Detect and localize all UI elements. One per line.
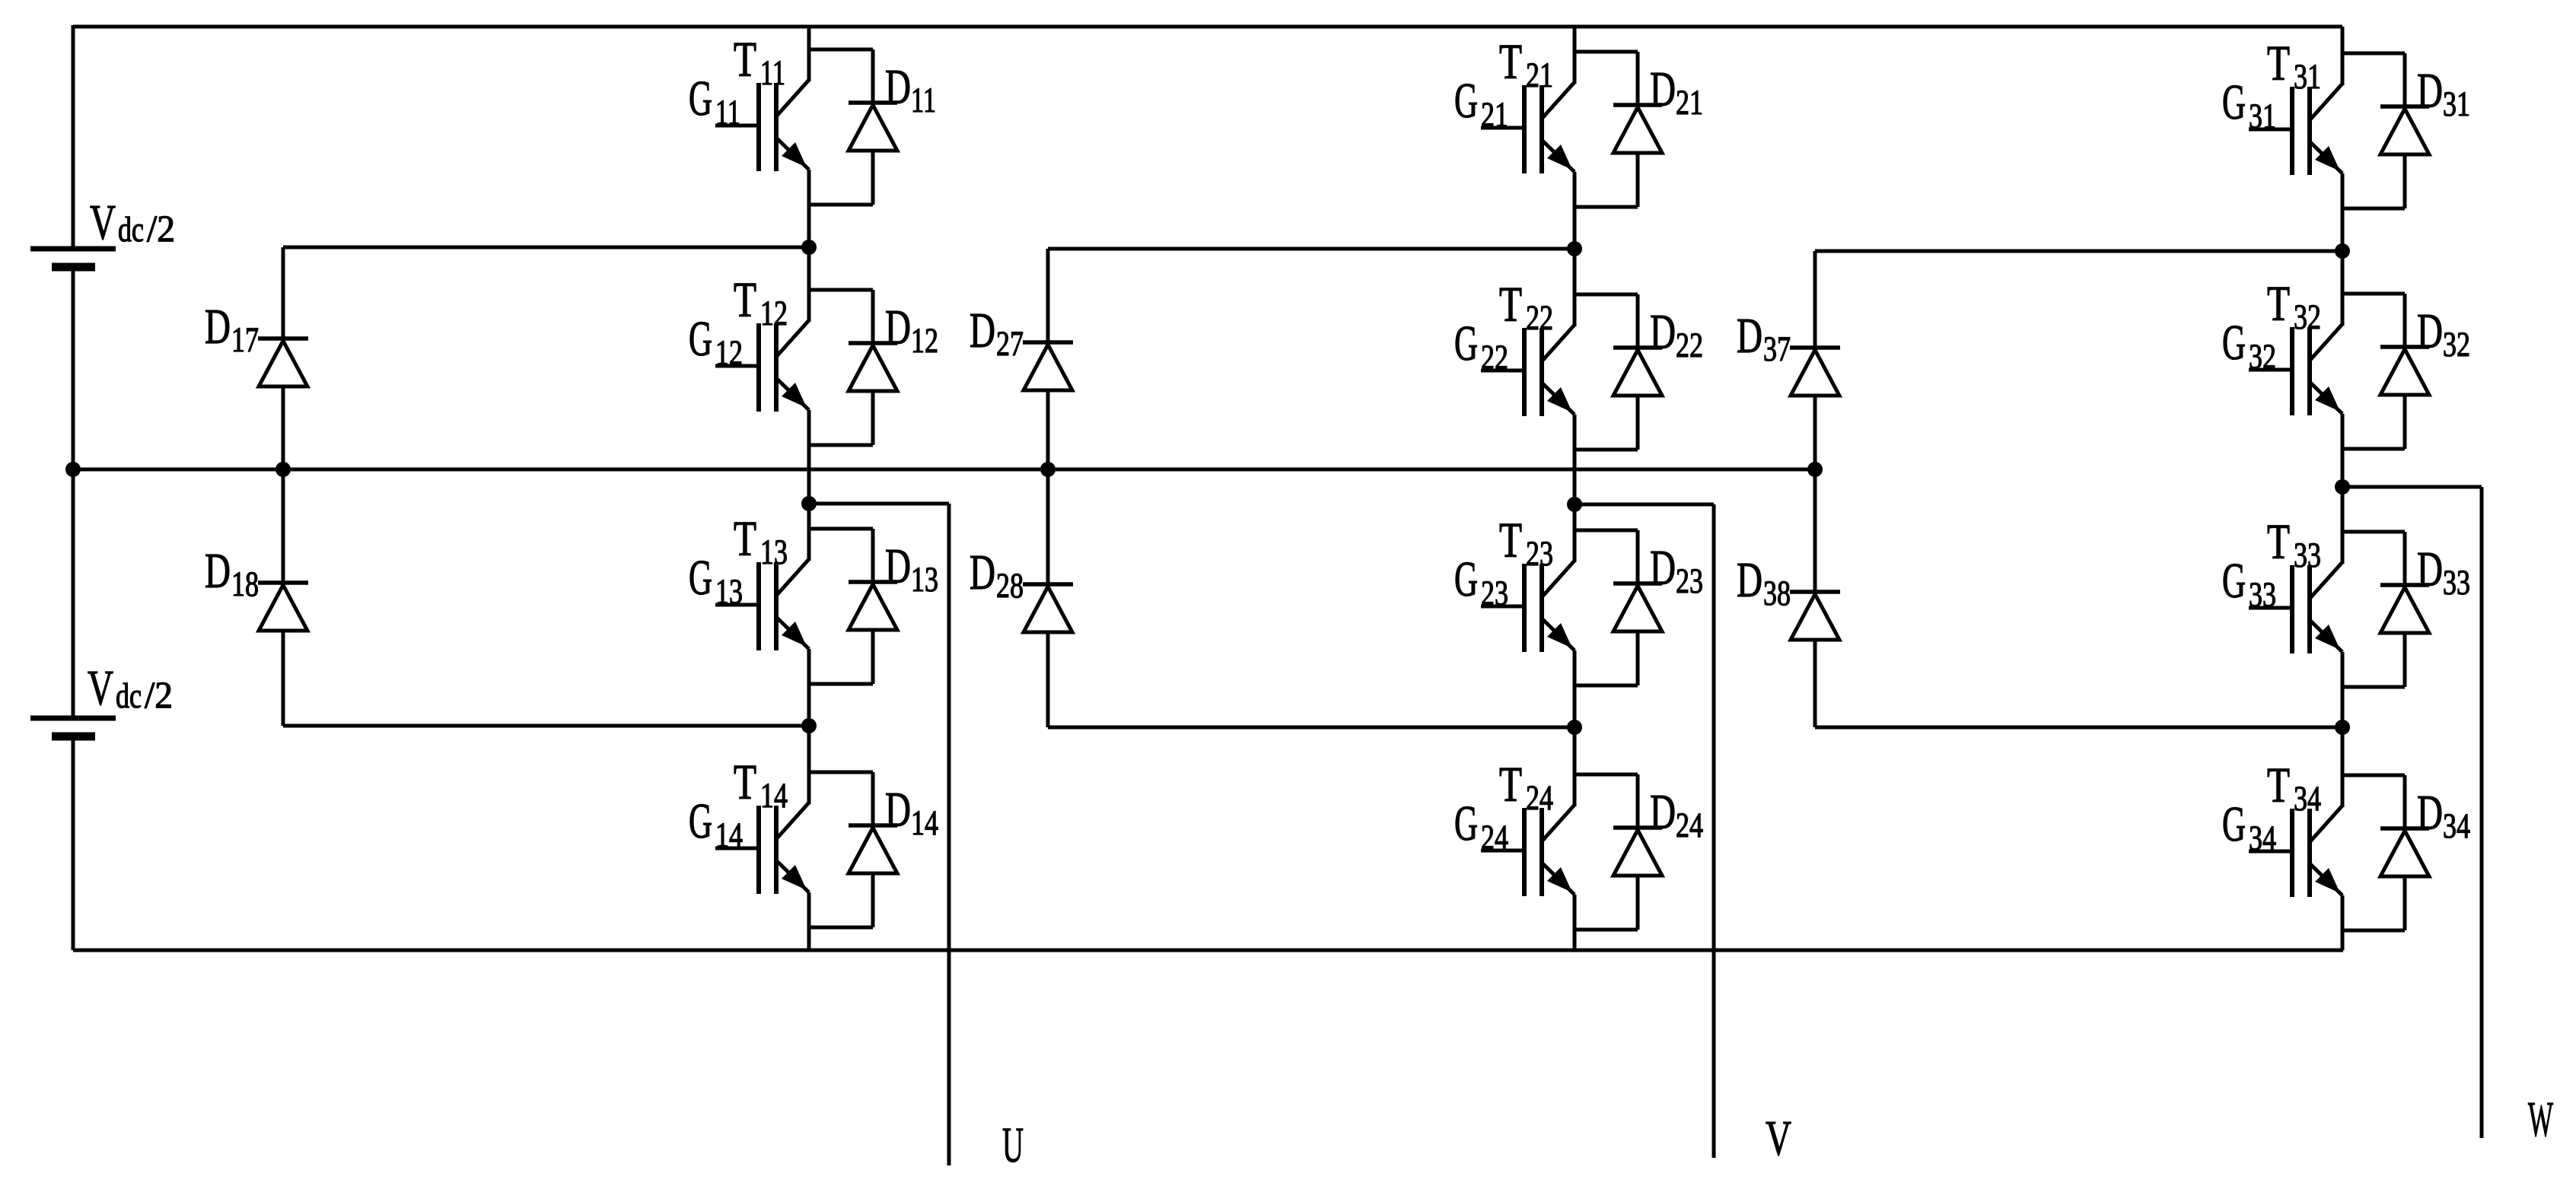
svg-text:T: T — [2267, 36, 2290, 91]
transistor T14 (IGBT) — [734, 726, 809, 950]
svg-text:T: T — [734, 511, 756, 567]
svg-text:12: 12 — [760, 294, 788, 333]
gate lead and label G31 of T31 — [2222, 75, 2292, 136]
node T23/T24 junction (junction dot) — [1567, 720, 1582, 735]
diode D24 (antiparallel) — [1575, 774, 1703, 930]
svg-text:D: D — [2417, 304, 2443, 359]
svg-text:22: 22 — [1676, 326, 1703, 365]
svg-text:T: T — [734, 272, 756, 328]
svg-text:32: 32 — [2249, 337, 2276, 377]
svg-text:G: G — [689, 550, 712, 606]
gate lead and label G11 of T11 — [689, 71, 759, 132]
wire clamp bottom link D18 to T13/T14 junction — [283, 724, 809, 728]
node neutral tap of phase leg 2 (junction dot) — [1040, 462, 1056, 477]
svg-text:11: 11 — [715, 93, 740, 132]
svg-text:dc: dc — [118, 210, 144, 250]
node phase output U junction (junction dot) — [801, 496, 817, 511]
transistor T22 (IGBT) — [1499, 249, 1575, 504]
diode D17 (clamp) — [205, 247, 308, 469]
svg-text:D: D — [2417, 785, 2443, 841]
svg-text:31: 31 — [2294, 57, 2321, 97]
svg-text:D: D — [885, 782, 911, 838]
svg-text:22: 22 — [1481, 338, 1508, 377]
svg-text:D: D — [885, 59, 911, 115]
svg-text:G: G — [1454, 552, 1478, 607]
transistor T13 (IGBT) — [734, 504, 809, 726]
svg-text:34: 34 — [2443, 806, 2470, 846]
svg-text:W: W — [2528, 1092, 2553, 1147]
svg-text:G: G — [2222, 75, 2246, 130]
battery V2 (Vdc/2 lower source) — [30, 660, 173, 736]
svg-text:T: T — [1499, 277, 1522, 332]
wire phase output V — [1575, 504, 1714, 1158]
transistor T32 (IGBT) — [2267, 251, 2342, 487]
node neutral at DC source midpoint (junction dot) — [65, 462, 81, 477]
diode D37 (clamp) — [1737, 251, 1840, 469]
svg-text:34: 34 — [2249, 819, 2276, 858]
diode D18 (clamp) — [205, 469, 308, 726]
node W (phase terminal label) — [2528, 1092, 2553, 1147]
gate lead and label G14 of T14 — [689, 793, 759, 855]
wire middle neutral rail — [73, 468, 1815, 472]
wire battery V2 negative plate to DC- rail — [72, 736, 75, 950]
gate lead and label G21 of T21 — [1454, 73, 1524, 135]
svg-text:T: T — [1499, 513, 1522, 568]
svg-text:G: G — [1454, 316, 1478, 371]
svg-text:21: 21 — [1676, 83, 1703, 122]
diode D12 (antiparallel) — [809, 290, 938, 445]
svg-text:D: D — [1737, 552, 1762, 608]
svg-text:D: D — [970, 545, 995, 600]
node phase output V junction (junction dot) — [1567, 497, 1582, 512]
svg-text:38: 38 — [1763, 574, 1791, 613]
svg-text:T: T — [2267, 514, 2290, 570]
transistor T33 (IGBT) — [2267, 487, 2342, 727]
node neutral tap of phase leg 3 (junction dot) — [1807, 462, 1823, 477]
svg-text:22: 22 — [1526, 298, 1553, 338]
svg-text:D: D — [1650, 784, 1676, 840]
svg-text:27: 27 — [996, 324, 1024, 364]
node V (phase terminal label) — [1766, 1111, 1791, 1166]
wire top DC+ rail — [73, 25, 2342, 29]
diode D31 (antiparallel) — [2342, 53, 2470, 208]
svg-text:23: 23 — [1481, 574, 1508, 613]
svg-text:13: 13 — [715, 572, 743, 612]
svg-text:12: 12 — [911, 321, 938, 361]
svg-text:T: T — [1499, 757, 1522, 812]
wire clamp top link D17 to T11/T12 junction — [283, 246, 809, 250]
node T21/T22 junction (junction dot) — [1567, 241, 1582, 256]
wire clamp bottom link D38 to T33/T34 junction — [1815, 726, 2342, 730]
diode D14 (antiparallel) — [809, 772, 938, 927]
svg-text:31: 31 — [2443, 84, 2470, 124]
diode D21 (antiparallel) — [1575, 52, 1703, 207]
gate lead and label G12 of T12 — [689, 311, 759, 373]
svg-text:V: V — [90, 195, 116, 250]
svg-text:dc: dc — [116, 676, 142, 716]
svg-text:17: 17 — [231, 320, 259, 360]
svg-text:33: 33 — [2443, 563, 2470, 603]
svg-text:24: 24 — [1481, 818, 1508, 857]
svg-text:/2: /2 — [147, 207, 175, 250]
svg-text:V: V — [88, 660, 113, 716]
svg-text:23: 23 — [1526, 534, 1553, 574]
svg-text:T: T — [1499, 34, 1522, 90]
wire DC+ rail down to battery V1 positive plate — [72, 25, 75, 249]
svg-text:28: 28 — [996, 566, 1024, 606]
transistor T11 (IGBT) — [734, 27, 809, 247]
svg-text:23: 23 — [1676, 561, 1703, 601]
diode D33 (antiparallel) — [2342, 532, 2470, 687]
node T33/T34 junction (junction dot) — [2335, 720, 2350, 735]
wire clamp top link D27 to T21/T22 junction — [1048, 247, 1575, 251]
node T31/T32 junction (junction dot) — [2335, 243, 2350, 259]
svg-text:G: G — [1454, 73, 1478, 129]
diode D22 (antiparallel) — [1575, 294, 1703, 450]
svg-text:/2: /2 — [145, 673, 173, 716]
svg-text:D: D — [2417, 63, 2443, 119]
svg-text:24: 24 — [1676, 806, 1703, 845]
transistor T23 (IGBT) — [1499, 504, 1575, 727]
transistor T34 (IGBT) — [2267, 727, 2342, 950]
diode D34 (antiparallel) — [2342, 775, 2470, 930]
diode D13 (antiparallel) — [809, 529, 938, 684]
svg-text:D: D — [205, 299, 231, 355]
svg-text:13: 13 — [911, 560, 938, 599]
diode D38 (clamp) — [1737, 469, 1840, 727]
node T13/T14 junction (junction dot) — [801, 718, 817, 733]
svg-text:D: D — [1737, 308, 1762, 364]
node T11/T12 junction (junction dot) — [801, 240, 817, 255]
svg-text:33: 33 — [2249, 575, 2276, 615]
svg-text:G: G — [689, 71, 712, 126]
transistor T21 (IGBT) — [1499, 27, 1575, 249]
svg-text:24: 24 — [1526, 778, 1553, 818]
svg-text:33: 33 — [2294, 536, 2321, 575]
svg-text:18: 18 — [231, 564, 259, 604]
svg-text:D: D — [1650, 62, 1676, 117]
gate lead and label G32 of T32 — [2222, 315, 2292, 377]
svg-text:21: 21 — [1481, 95, 1508, 135]
svg-text:D: D — [205, 543, 231, 599]
node phase output W junction (junction dot) — [2335, 479, 2350, 494]
gate lead and label G13 of T13 — [689, 550, 759, 612]
svg-text:34: 34 — [2294, 779, 2321, 819]
svg-text:12: 12 — [715, 333, 743, 373]
svg-text:14: 14 — [760, 776, 788, 816]
wire phase output U — [809, 504, 949, 1165]
svg-text:14: 14 — [911, 803, 938, 843]
node neutral tap of phase leg 1 (junction dot) — [275, 462, 291, 477]
svg-text:V: V — [1766, 1111, 1791, 1166]
transistor T24 (IGBT) — [1499, 727, 1575, 950]
svg-text:D: D — [885, 539, 911, 594]
svg-text:D: D — [970, 303, 995, 358]
svg-text:37: 37 — [1763, 329, 1791, 369]
wire bottom DC- rail — [73, 949, 2343, 952]
svg-text:T: T — [2267, 276, 2290, 332]
svg-text:11: 11 — [760, 53, 785, 93]
svg-text:14: 14 — [715, 816, 743, 855]
diode D28 (clamp) — [970, 469, 1073, 727]
svg-text:D: D — [1650, 540, 1676, 596]
svg-text:31: 31 — [2249, 97, 2276, 136]
svg-text:32: 32 — [2443, 325, 2470, 364]
svg-text:21: 21 — [1526, 56, 1553, 95]
diode D23 (antiparallel) — [1575, 530, 1703, 685]
svg-text:U: U — [1002, 1118, 1024, 1173]
wire clamp top link D37 to T31/T32 junction — [1815, 250, 2342, 253]
svg-text:G: G — [2222, 553, 2246, 609]
gate lead and label G34 of T34 — [2222, 796, 2292, 858]
svg-text:13: 13 — [760, 533, 788, 572]
gate lead and label G23 of T23 — [1454, 552, 1524, 613]
svg-text:11: 11 — [911, 81, 936, 120]
svg-text:D: D — [1650, 304, 1676, 360]
battery V1 (Vdc/2 upper source) — [30, 195, 175, 267]
wire clamp bottom link D28 to T23/T24 junction — [1048, 726, 1575, 730]
transistor T31 (IGBT) — [2267, 27, 2342, 251]
svg-text:G: G — [1454, 796, 1478, 851]
gate lead and label G33 of T33 — [2222, 553, 2292, 615]
svg-text:D: D — [885, 300, 911, 355]
svg-text:T: T — [734, 755, 756, 810]
node U (phase terminal label) — [1002, 1118, 1024, 1173]
svg-text:G: G — [2222, 315, 2246, 370]
wire battery V1 negative plate to neutral rail — [72, 267, 75, 469]
svg-text:D: D — [2417, 542, 2443, 597]
wire neutral rail down to battery V2 positive plate — [72, 469, 75, 718]
svg-text:G: G — [689, 311, 712, 367]
diode D11 (antiparallel) — [809, 49, 936, 205]
transistor T12 (IGBT) — [734, 247, 809, 504]
svg-text:T: T — [734, 32, 756, 87]
svg-text:32: 32 — [2294, 297, 2321, 337]
gate lead and label G24 of T24 — [1454, 796, 1524, 857]
svg-text:G: G — [689, 793, 712, 849]
wire phase output W — [2342, 487, 2482, 1138]
diode D32 (antiparallel) — [2342, 294, 2470, 449]
svg-text:T: T — [2267, 758, 2290, 813]
svg-text:G: G — [2222, 796, 2246, 852]
diode D27 (clamp) — [970, 249, 1073, 469]
gate lead and label G22 of T22 — [1454, 316, 1524, 377]
